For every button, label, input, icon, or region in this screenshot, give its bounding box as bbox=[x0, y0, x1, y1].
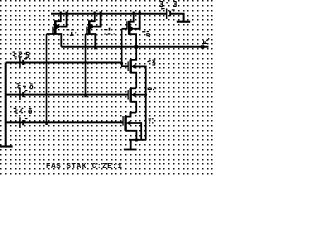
VA negative plate bbox=[22, 60, 24, 65]
junction bump rail / Q3 drain bbox=[133, 12, 135, 14]
junction bump rail / Q2 bulk bbox=[100, 12, 102, 14]
junction bump rail / Q3 bulk bbox=[139, 12, 141, 14]
transistor Q4 (right column top, NMOS-style, bar x=130.2) bbox=[128, 47, 146, 140]
Q6 drain lead bbox=[125, 113, 130, 117]
label Q3 bbox=[142, 31, 150, 37]
transistor Q5 (right column middle, bar x=130.2) bbox=[128, 88, 146, 117]
VB negative plate bbox=[22, 92, 24, 97]
wire gate Q2 drop bbox=[85, 34, 87, 95]
text label VB bbox=[17, 83, 21, 89]
svg-text:FAS STAK C:ZE:1: FAS STAK C:ZE:1 bbox=[46, 163, 123, 171]
Q1 drain lead to rail bbox=[55, 14, 61, 22]
B1 negative plate bbox=[169, 11, 171, 16]
Q2 gate and source leads bbox=[86, 34, 96, 47]
Q3 drain lead to rail bbox=[129, 14, 134, 22]
battery VA (branch A) bbox=[19, 57, 27, 68]
junction bump branch B / Q2 bbox=[84, 95, 86, 97]
wire gate Q3 drop to branch A and T4 feed bbox=[122, 29, 128, 66]
Q6 gate bar bbox=[122, 116, 123, 126]
junction dot probe bbox=[201, 45, 204, 48]
B1 positive plate bbox=[166, 9, 168, 20]
Q1 bulk lead to rail bbox=[60, 14, 66, 27]
transistor Q6 (right column bottom, bar x=124.6) bbox=[122, 113, 146, 150]
grid dots bbox=[0, 0, 213, 175]
Q5 bulk lead to bulk rail bbox=[135, 94, 146, 96]
wire branch B (middle input) bbox=[6, 94, 128, 96]
battery B1 (top right supply) bbox=[161, 8, 174, 19]
text label VA bbox=[13, 52, 17, 58]
VC plus mark bbox=[25, 118, 28, 119]
Q3 bulk lead to rail bbox=[134, 14, 140, 29]
transistor Q2 (top-middle, bar x=89) bbox=[86, 12, 102, 47]
label Q1 bbox=[66, 29, 76, 36]
wire gate Q1 drop bbox=[46, 34, 48, 122]
Q1 channel bar bbox=[54, 20, 57, 34]
VC positive plate bbox=[19, 117, 21, 128]
wire branch C (bottom input) bbox=[6, 121, 123, 123]
Q5 source lead bbox=[130, 102, 136, 113]
label Q4 bbox=[147, 60, 155, 66]
wire VDD rail bbox=[51, 13, 166, 15]
B1 plus mark bbox=[162, 8, 164, 9]
junction bump rail / Q1 bulk bbox=[66, 12, 68, 14]
junction bump branch C / Q1 bbox=[45, 123, 47, 125]
wire Q5 source jog to Q6 drain bbox=[131, 113, 137, 117]
transistor Q3 (top-right, bar x=128.8) bbox=[122, 12, 141, 47]
battery VB (branch B) bbox=[19, 89, 27, 100]
Q3 channel bar bbox=[128, 21, 131, 35]
Q3 gate bar bbox=[126, 21, 127, 29]
ground left bus bbox=[0, 145, 13, 147]
Q5 channel bar bbox=[130, 88, 132, 102]
ground bottom (Q6 source) bbox=[124, 149, 137, 151]
Q3 source lead to output node bbox=[129, 34, 136, 47]
VA positive plate bbox=[19, 57, 21, 68]
Q2 bulk lead to rail bbox=[94, 14, 100, 27]
junction bump rail / Q2 drain bbox=[94, 12, 96, 14]
Q5 drain lead bbox=[130, 87, 136, 89]
Q6 bulk arrow bbox=[126, 121, 130, 126]
label Q5 bbox=[148, 88, 157, 91]
wire left ground bus bbox=[5, 63, 7, 147]
junction bump bulk rail / Q5 bbox=[145, 94, 147, 96]
probe arrow bbox=[203, 38, 210, 44]
transistor Q1 (top-left, PMOS-style, bar x=55) bbox=[47, 12, 68, 47]
Q4 gate bar bbox=[128, 61, 129, 71]
junction bump branch A / Q3 bbox=[121, 62, 123, 64]
Q1 gate and source leads bbox=[47, 34, 62, 47]
Q6 bulk lead down to ground node bbox=[130, 123, 141, 140]
wire output node OUT bbox=[61, 46, 208, 48]
battery VC (branch C) bbox=[19, 117, 27, 128]
text battery value bbox=[160, 1, 164, 7]
circuit schematic: 3-input pass-transistor / NAND stack on dotted grid bbox=[0, 0, 213, 175]
Q2 drain lead to rail bbox=[89, 14, 95, 22]
VB positive plate bbox=[19, 89, 21, 100]
wire ground node to ground symbol bbox=[130, 140, 132, 149]
label Q2 bbox=[104, 28, 115, 35]
wire branch A (top input) bbox=[6, 62, 122, 64]
junction bump ground node bbox=[135, 139, 138, 142]
Q2 channel bar bbox=[88, 20, 91, 34]
VB plus mark bbox=[25, 90, 28, 91]
Q4 bulk lead and bulk rail down to ground node bbox=[135, 66, 146, 139]
Q2 gate bar bbox=[86, 27, 87, 35]
junction bump rail / Q1 drain bbox=[60, 12, 62, 14]
B1 minus mark bbox=[172, 9, 175, 10]
label Q6 bbox=[149, 118, 154, 123]
Q4 drain lead to output node bbox=[130, 47, 136, 60]
Q6 channel bar bbox=[124, 116, 126, 131]
Q3 gate lead bbox=[122, 28, 127, 30]
junction bump output / Q2 source bbox=[94, 47, 96, 49]
ground top-right bbox=[177, 21, 190, 23]
Q1 gate bar bbox=[52, 27, 53, 35]
Q4 bulk arrow bbox=[131, 64, 136, 69]
Q2 bulk arrow bbox=[90, 24, 95, 29]
Q4 source lead to Q5 drain bbox=[130, 73, 136, 88]
VA plus mark bbox=[25, 58, 28, 59]
Q4 channel bar bbox=[130, 60, 132, 74]
Q6 source lead down to ground node bbox=[125, 131, 136, 140]
wire ground node horizontal bbox=[129, 139, 146, 141]
junction dot output at Q3/Q4 bbox=[135, 45, 138, 49]
Q1 bulk arrow bbox=[56, 24, 61, 29]
text label VC bbox=[14, 108, 18, 114]
Q3 bulk arrow bbox=[130, 26, 134, 31]
wire battery V+ to ground bbox=[170, 14, 184, 21]
VC negative plate bbox=[22, 120, 24, 125]
Q5 gate bar bbox=[128, 90, 129, 100]
Q5 bulk arrow bbox=[131, 92, 136, 97]
